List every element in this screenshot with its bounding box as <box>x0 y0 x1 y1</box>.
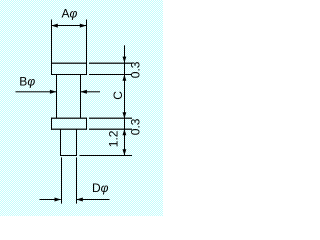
pin left edge <box>60 129 61 155</box>
extension line of cap step <box>89 63 132 64</box>
extension line of flange top <box>89 118 132 119</box>
flange top edge <box>51 118 87 119</box>
extension line of cap bottom <box>89 74 132 75</box>
pin right edge <box>76 129 77 155</box>
arrowhead B right <box>80 90 87 94</box>
svg-text:Aφ: Aφ <box>62 7 78 21</box>
arrowhead chain up at flange bottom <box>123 129 127 135</box>
body left edge <box>56 75 57 119</box>
extension line of pin bottom <box>80 155 133 156</box>
dimension B left shaft <box>16 91 57 92</box>
arrowhead A left <box>51 24 58 28</box>
arrowhead chain down at cap step <box>123 57 127 63</box>
extension line pin right <box>76 157 77 203</box>
arrowhead D right <box>76 198 83 202</box>
arrowhead B left <box>50 90 57 94</box>
cap top edge / dimension line A <box>51 25 87 26</box>
arrowhead chain down at pin bottom <box>123 149 127 155</box>
pin bottom edge <box>60 155 77 156</box>
svg-text:0.3: 0.3 <box>129 118 143 135</box>
dimension B right shaft <box>80 91 100 92</box>
right dimension chain line <box>124 45 125 156</box>
flange right edge <box>86 118 87 130</box>
arrowhead D left <box>55 198 62 202</box>
flange bottom edge <box>51 129 87 130</box>
flange left edge <box>51 118 52 130</box>
cap bottom edge <box>51 74 87 75</box>
body right edge <box>80 75 81 119</box>
cap internal step line <box>51 63 87 64</box>
extension line pin left <box>61 157 62 203</box>
svg-text:0.3: 0.3 <box>129 61 143 78</box>
arrowhead A right <box>80 24 87 28</box>
arrowhead chain down at flange top <box>123 112 127 118</box>
svg-text:1.2: 1.2 <box>107 130 121 147</box>
extension line of flange bottom <box>89 129 132 130</box>
dimension D left shaft <box>40 199 61 200</box>
arrowhead chain up at cap bottom <box>123 75 127 81</box>
svg-text:C: C <box>111 91 125 100</box>
cap left edge with extension overshoot <box>51 20 52 76</box>
dimension D right shaft <box>76 199 109 200</box>
svg-text:Bφ: Bφ <box>19 75 35 89</box>
background texture <box>0 0 163 216</box>
cap right edge with extension overshoot <box>86 20 87 76</box>
svg-text:Dφ: Dφ <box>92 181 109 195</box>
